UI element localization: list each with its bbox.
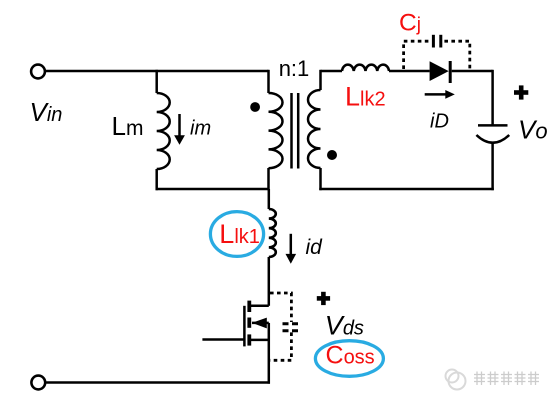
svg-text:im: im (190, 117, 211, 139)
svg-text:Llk1: Llk1 (219, 219, 260, 249)
Coss label (326, 342, 375, 370)
Cj label (399, 9, 421, 36)
input terminal top (31, 65, 45, 79)
diode D (430, 61, 451, 83)
id label (306, 236, 324, 259)
wire center drop to Llk1 (268, 189, 271, 209)
wire secondary top left (321, 70, 343, 73)
svg-text:Lm: Lm (112, 111, 144, 141)
watermark logo (446, 370, 466, 390)
inductor Llk2 (secondary leakage) (342, 65, 389, 71)
svg-text:Vo: Vo (518, 115, 548, 145)
input terminal bottom (31, 376, 45, 390)
svg-text:Vds: Vds (325, 310, 364, 340)
svg-text:Llk2: Llk2 (345, 82, 386, 112)
svg-text:n:1: n:1 (279, 56, 310, 81)
capacitor Co output (476, 125, 509, 190)
svg-text:Cj: Cj (399, 9, 421, 36)
wire secondary bottom (319, 188, 494, 191)
svg-text:id: id (306, 236, 324, 259)
wire output right rail top (491, 70, 494, 126)
Llk1 label (219, 219, 260, 249)
svg-text:Coss: Coss (326, 342, 375, 370)
svg-text:Vin: Vin (30, 97, 63, 127)
Lm value label (112, 111, 144, 141)
svg-text:iD: iD (430, 110, 449, 132)
wire bottom rail (46, 381, 270, 384)
secondary polarity dot (327, 150, 337, 160)
plus sign Vds (317, 292, 330, 305)
Vds label (325, 310, 364, 340)
transformer core (292, 93, 299, 169)
capacitor Cj (diode junction, dashed) (404, 35, 470, 69)
wire primary bottom (156, 188, 269, 191)
Llk1 callout ellipse (210, 212, 263, 257)
wire Llk2 to diode (389, 70, 430, 73)
turns ratio n:1 (279, 56, 310, 81)
id current arrow (286, 234, 297, 264)
Llk2 label (345, 82, 386, 112)
watermark text blocks (474, 372, 539, 386)
iD current arrow (425, 90, 455, 99)
iD label (430, 110, 449, 132)
transformer secondary winding (308, 70, 321, 190)
im current arrow (174, 114, 185, 145)
capacitor Coss (dashed) (270, 293, 298, 360)
primary polarity dot (250, 102, 260, 112)
wire top rail (46, 70, 269, 73)
wire diode to output (452, 70, 493, 73)
transistor Q1 MOSFET (202, 301, 268, 347)
node Vin label (30, 97, 63, 127)
transformer primary winding (269, 70, 283, 190)
inductor Lm (magnetizing) (157, 70, 170, 190)
im label (190, 117, 211, 139)
Vo label (518, 115, 548, 145)
wire Llk1 to MOSFET drain (268, 257, 271, 306)
inductor Llk1 (primary leakage) (269, 209, 276, 257)
Coss callout ellipse (315, 341, 383, 377)
plus sign output (514, 85, 528, 99)
wire source to bottom rail (268, 323, 271, 384)
